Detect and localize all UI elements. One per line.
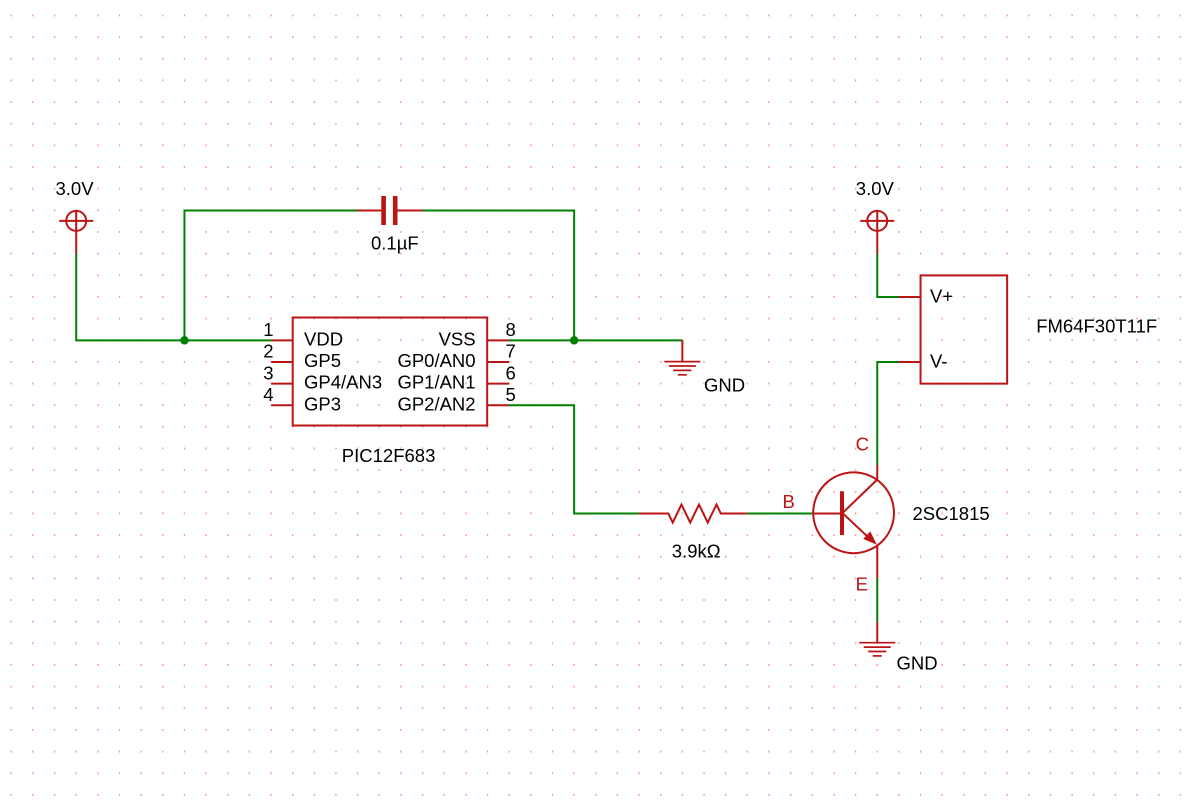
- wire node A up to capacitor: [184, 210, 357, 340]
- power supply V2 3.0V (right): [860, 210, 894, 253]
- wire resistor R1 to Q1 base: [747, 513, 812, 515]
- U1 pin 3 GP4/AN3 lead: [271, 383, 292, 385]
- power supply V1 3.0V (left): [59, 210, 93, 253]
- junction node B: [570, 336, 578, 344]
- wire node A to U1 pin 1: [184, 339, 271, 341]
- svg-text:2SC1815: 2SC1815: [913, 503, 990, 524]
- wire capacitor to node B: [423, 210, 575, 340]
- svg-text:3.0V: 3.0V: [856, 178, 895, 199]
- motor M1 FM64F30T11F body: [921, 275, 1008, 383]
- svg-text:GND: GND: [897, 652, 938, 673]
- svg-text:C: C: [856, 434, 869, 455]
- ground symbol GND1: [664, 362, 700, 375]
- ground stub (GND2): [876, 622, 878, 643]
- svg-text:FM64F30T11F: FM64F30T11F: [1036, 315, 1157, 336]
- svg-text:V-: V-: [930, 351, 947, 372]
- capacitor C1 0.1uF: [357, 196, 423, 225]
- U1 pin 2 GP5 lead: [271, 361, 292, 363]
- resistor R1 3.9kOhm: [639, 505, 747, 523]
- IC U1 PIC12F683 body: [293, 318, 488, 426]
- svg-text:GP1/AN1: GP1/AN1: [397, 372, 475, 393]
- svg-text:4: 4: [263, 384, 273, 405]
- M1 V- pin lead: [899, 361, 921, 363]
- ground symbol GND2: [859, 643, 895, 656]
- U1 pin 5 GP2/AN2 lead: [487, 404, 509, 406]
- M1 V+ pin lead: [899, 296, 921, 298]
- U1 pin 4 GP3 lead: [271, 404, 292, 406]
- svg-text:3: 3: [263, 362, 273, 383]
- svg-text:GP5: GP5: [304, 350, 341, 371]
- svg-text:VSS: VSS: [439, 328, 476, 349]
- svg-text:GP3: GP3: [304, 393, 341, 414]
- svg-text:3.0V: 3.0V: [56, 178, 95, 199]
- svg-text:GP4/AN3: GP4/AN3: [304, 372, 382, 393]
- svg-text:0.1µF: 0.1µF: [371, 233, 419, 254]
- U1 pin 1 VDD lead: [271, 339, 292, 341]
- wire U1 pin 5 to resistor R1: [509, 405, 639, 513]
- wire V1 to node A: [76, 254, 184, 341]
- svg-text:6: 6: [506, 362, 516, 383]
- wire V2 to M1 V+: [877, 254, 899, 297]
- wire M1 V- to Q1 collector: [877, 362, 899, 465]
- svg-text:1: 1: [263, 319, 273, 340]
- svg-text:E: E: [856, 574, 868, 595]
- svg-text:GP0/AN0: GP0/AN0: [397, 350, 475, 371]
- svg-text:5: 5: [506, 384, 516, 405]
- svg-text:VDD: VDD: [304, 328, 343, 349]
- U1 pin 6 GP1/AN1 lead: [487, 383, 509, 385]
- U1 pin 7 GP0/AN0 lead: [487, 361, 509, 363]
- svg-text:8: 8: [506, 319, 516, 340]
- svg-text:GP2/AN2: GP2/AN2: [397, 393, 475, 414]
- svg-text:3.9kΩ: 3.9kΩ: [672, 541, 721, 562]
- svg-text:PIC12F683: PIC12F683: [342, 445, 436, 466]
- svg-text:V+: V+: [930, 286, 953, 307]
- wire U1 pin 8 to ground: [509, 339, 682, 341]
- U1 pin 8 VSS lead: [487, 339, 509, 341]
- wire Q1 emitter to ground: [876, 579, 878, 622]
- junction node A: [180, 336, 188, 344]
- transistor Q1 2SC1815: [812, 465, 894, 579]
- svg-text:2: 2: [263, 341, 273, 362]
- Q1 emitter arrow: [863, 531, 877, 544]
- svg-text:B: B: [783, 491, 795, 512]
- svg-text:GND: GND: [704, 375, 745, 396]
- ground stub (GND1): [681, 340, 683, 361]
- svg-text:7: 7: [506, 341, 516, 362]
